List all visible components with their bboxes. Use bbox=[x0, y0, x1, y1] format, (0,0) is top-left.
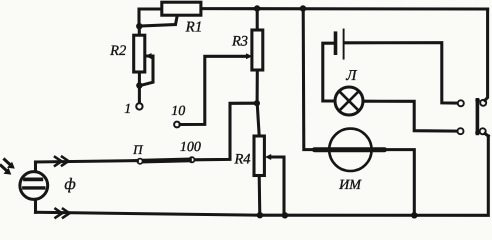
resistor R3 bbox=[252, 30, 263, 70]
svg-text:Л: Л bbox=[345, 68, 357, 84]
svg-text:R4: R4 bbox=[233, 152, 250, 168]
wire R3 bottom to junction C bbox=[256, 70, 259, 103]
node R4-rail junction dot bbox=[257, 212, 263, 218]
node bus meter-branch junction dot bbox=[300, 5, 306, 11]
switch blade bottom pivot dot bbox=[475, 131, 480, 136]
node bus-R3 junction dot bbox=[254, 5, 260, 11]
wire R4 bottom to rail bbox=[258, 176, 262, 216]
R3 wiper arrowhead bbox=[246, 53, 252, 59]
switch pole1 right contact bbox=[480, 100, 486, 106]
resistor R4 bbox=[254, 136, 264, 176]
terminal 100 bbox=[189, 157, 194, 162]
meter IM circle bbox=[329, 129, 371, 171]
photocell top electrode bbox=[25, 177, 41, 181]
switch pole2 left contact bbox=[458, 128, 464, 134]
wire junction C to R4 bbox=[257, 103, 259, 136]
wire terminal 10 to R3 wiper bbox=[180, 56, 248, 124]
svg-text:R1: R1 bbox=[185, 20, 203, 36]
light arrow 2 bbox=[1, 166, 7, 172]
node C junction dot bbox=[254, 100, 260, 106]
switch pole1 left contact bbox=[458, 100, 464, 106]
battery negative plate bbox=[334, 33, 338, 53]
node A junction dot bbox=[136, 23, 142, 29]
wire junction A to R2 bbox=[138, 26, 141, 35]
terminal 1 bbox=[136, 103, 142, 109]
wire R1 tap to junction A bbox=[140, 15, 177, 26]
R4 wiper arrowhead bbox=[265, 154, 271, 160]
lamp cross bbox=[339, 91, 359, 111]
svg-text:R2: R2 bbox=[109, 43, 126, 59]
svg-text:ф: ф bbox=[64, 176, 75, 193]
wire bus to switch pole1 right bbox=[485, 9, 488, 100]
terminal P contact bbox=[137, 159, 142, 164]
node R4 wiper rail junction dot bbox=[282, 212, 288, 218]
lamp L bbox=[335, 87, 363, 115]
light arrow 1 bbox=[5, 160, 11, 166]
wire bottom rail bbox=[36, 136, 489, 215]
wire meter to rail bbox=[384, 150, 414, 216]
wire photocell top lead bbox=[34, 162, 37, 172]
switch pole2 right contact bbox=[480, 128, 486, 134]
connector chevrons top bbox=[55, 157, 62, 166]
wire top bus left segment bbox=[139, 9, 162, 27]
svg-text:100: 100 bbox=[180, 140, 201, 155]
wire bus to R3 top bbox=[256, 9, 259, 31]
node B junction dot bbox=[136, 82, 142, 88]
resistor R2 bbox=[134, 35, 145, 72]
wire photocell top to P contact bbox=[36, 161, 138, 162]
meter IM coil bar bbox=[315, 147, 385, 152]
wire junction B to terminal 1 bbox=[138, 86, 141, 104]
wire R4 wiper to rail bbox=[270, 157, 285, 215]
node meter-rail junction dot bbox=[411, 212, 417, 218]
wire top bus right segment bbox=[201, 7, 488, 10]
svg-text:10: 10 bbox=[171, 104, 185, 119]
R2 wiper arrowhead bbox=[145, 53, 151, 59]
resistor R1 bbox=[162, 2, 201, 15]
photocell bottom electrode bbox=[24, 186, 44, 189]
wire junction C to terminal 100 bbox=[195, 103, 257, 160]
terminal 10 bbox=[174, 122, 180, 128]
connector chevrons bottom bbox=[56, 209, 63, 218]
switch blade top pivot dot bbox=[475, 98, 480, 103]
battery positive plate bbox=[343, 30, 345, 59]
switch blade bbox=[476, 100, 480, 134]
wire battery right to switch bbox=[345, 43, 458, 104]
photocell F bbox=[20, 172, 48, 200]
wire battery left to lamp bbox=[323, 43, 335, 101]
svg-text:ИМ: ИМ bbox=[338, 178, 362, 193]
svg-text:R3: R3 bbox=[231, 34, 248, 50]
wire R2 wiper return bbox=[141, 56, 153, 85]
wire R2 bottom to junction B bbox=[138, 72, 141, 86]
jumper bar P between terminals bbox=[143, 160, 190, 161]
wire photocell bottom lead bbox=[34, 199, 37, 212]
svg-text:П: П bbox=[132, 142, 144, 157]
wire lamp to switch pole2 bbox=[363, 101, 457, 131]
wire bus to meter bbox=[303, 9, 315, 150]
wire rail to switch pole2 right bbox=[485, 134, 488, 136]
svg-text:1: 1 bbox=[124, 102, 131, 117]
